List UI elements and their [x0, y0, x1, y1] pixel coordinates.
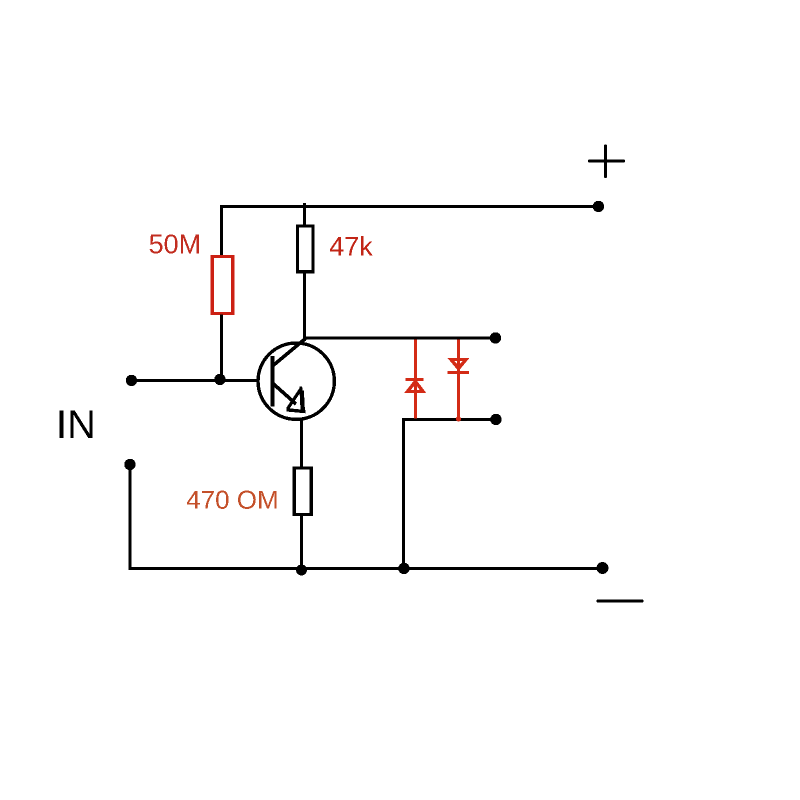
node lower output dot [490, 414, 501, 425]
node diode-branch rail junction dot [398, 563, 409, 574]
node base junction dot [214, 374, 225, 385]
wire from top rail down to resistor 47k [303, 203, 306, 225]
transistor Q1 base bar [270, 356, 274, 407]
transistor Q1 collector lead diagonal [273, 339, 306, 367]
wire bottom rail [129, 567, 604, 570]
label 47k [330, 236, 373, 256]
node diode D2 bottom end [456, 416, 461, 421]
node input left terminal dot [126, 375, 137, 386]
wire from resistor 50M down to base node [220, 315, 223, 382]
wire from lower output corner down to bottom rail [402, 418, 405, 568]
wire from resistor 47k down to collector [303, 272, 306, 341]
node bottom-right negative terminal dot [597, 562, 609, 574]
node input lower terminal dot [124, 459, 135, 470]
label IN [60, 410, 93, 438]
wire emitter down to resistor 470 OM [300, 419, 303, 467]
diode D1 triangle pointing up [408, 382, 424, 392]
diode D2 triangle pointing down [451, 360, 466, 369]
plus terminal symbol [590, 146, 624, 177]
wire from resistor 470 OM down to bottom rail [300, 515, 303, 569]
diode D2 cathode bar [448, 371, 470, 374]
wire lower output horizontal [404, 418, 497, 421]
node emitter-rail junction dot [296, 565, 307, 576]
transistor Q1 emitter lead diagonal [273, 384, 296, 405]
resistor 50M body [212, 257, 233, 314]
resistor 47k body [298, 226, 314, 272]
transistor Q1 body circle [258, 343, 334, 419]
wire from top rail down to resistor 50M [220, 205, 223, 256]
wire lower input down to bottom rail [129, 465, 132, 570]
wire diode D2 branch vertical red [457, 340, 460, 421]
node collector output dot [490, 332, 501, 343]
label 50M [150, 234, 199, 253]
wire top rail [222, 205, 600, 208]
label 470 OM [187, 491, 277, 509]
node top-right positive terminal dot [593, 201, 604, 212]
wire diode D1 branch vertical red [414, 340, 417, 419]
minus terminal symbol [598, 599, 642, 602]
resistor 470 OM body [294, 468, 311, 515]
diode D1 cathode bar [406, 378, 424, 381]
wire base input horizontal [131, 379, 259, 382]
wire collector node horizontal to right [305, 337, 497, 340]
transistor Q1 emitter arrow head [287, 387, 306, 412]
